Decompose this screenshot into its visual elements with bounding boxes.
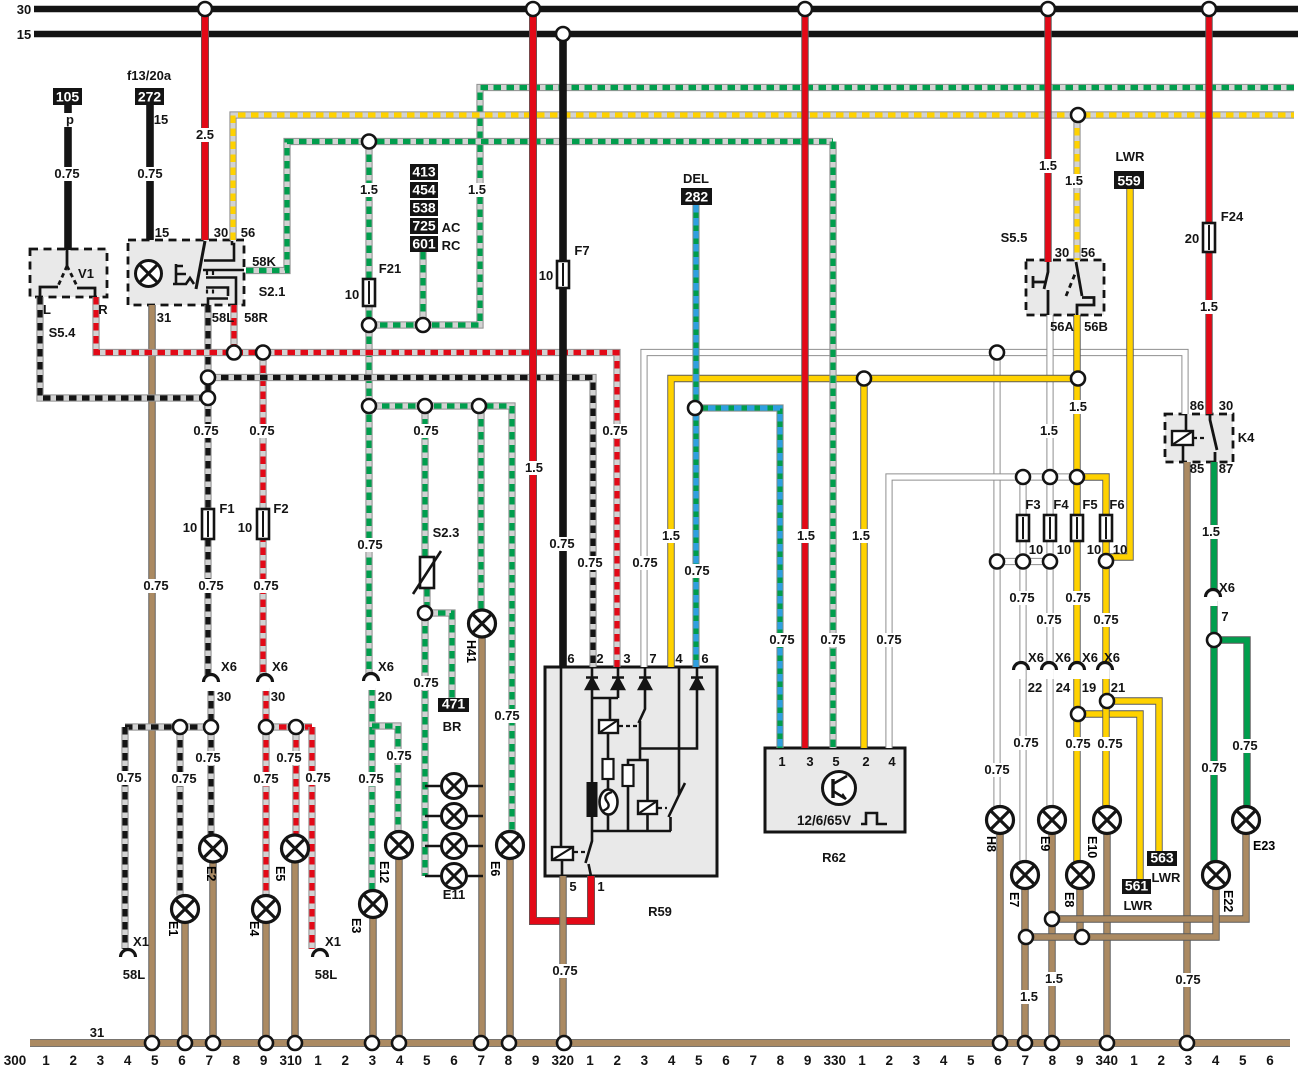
svg-text:20: 20 [1185,231,1199,246]
svg-text:0.75: 0.75 [820,632,845,647]
svg-text:p: p [66,112,74,127]
svg-text:1.5: 1.5 [662,528,680,543]
svg-text:S2.3: S2.3 [433,525,460,540]
svg-text:S5.4: S5.4 [49,325,77,340]
svg-text:3: 3 [806,754,813,769]
svg-text:413: 413 [412,164,436,180]
svg-text:9: 9 [532,1053,540,1068]
svg-text:8: 8 [233,1053,241,1068]
svg-text:58K: 58K [252,254,276,269]
svg-text:454: 454 [412,182,436,198]
svg-text:300: 300 [4,1053,27,1068]
svg-text:10: 10 [1057,542,1071,557]
svg-text:0.75: 0.75 [305,770,330,785]
svg-text:LWR: LWR [1116,149,1145,164]
svg-text:R59: R59 [648,904,672,919]
svg-text:F2: F2 [273,501,288,516]
svg-text:f13/20a: f13/20a [127,68,172,83]
svg-text:1: 1 [586,1053,594,1068]
svg-text:7: 7 [1021,1053,1029,1068]
svg-text:F24: F24 [1221,209,1244,224]
svg-text:1: 1 [1130,1053,1138,1068]
svg-text:7: 7 [749,1053,757,1068]
svg-text:0.75: 0.75 [1065,736,1090,751]
svg-text:0.75: 0.75 [552,963,577,978]
svg-text:0.75: 0.75 [1093,612,1118,627]
svg-text:22: 22 [1028,680,1042,695]
svg-text:7: 7 [205,1053,213,1068]
svg-text:0.75: 0.75 [358,771,383,786]
svg-text:1: 1 [42,1053,50,1068]
svg-text:2: 2 [885,1053,893,1068]
svg-text:S2.1: S2.1 [259,284,286,299]
svg-text:471: 471 [442,696,466,712]
svg-text:7: 7 [649,651,656,666]
svg-text:K4: K4 [1238,430,1255,445]
svg-text:0.75: 0.75 [116,770,141,785]
svg-text:105: 105 [56,89,80,105]
svg-text:6: 6 [701,651,708,666]
svg-text:R62: R62 [822,850,846,865]
svg-text:725: 725 [412,218,436,234]
svg-text:56: 56 [1081,245,1095,260]
svg-text:15: 15 [17,27,31,42]
svg-text:10: 10 [1029,542,1043,557]
svg-text:272: 272 [138,89,162,105]
svg-text:0.75: 0.75 [1201,760,1226,775]
svg-text:340: 340 [1096,1053,1119,1068]
svg-text:0.75: 0.75 [684,563,709,578]
svg-text:282: 282 [685,189,709,205]
svg-text:1.5: 1.5 [852,528,870,543]
svg-text:0.75: 0.75 [195,750,220,765]
svg-text:2: 2 [613,1053,621,1068]
svg-text:30: 30 [217,689,231,704]
svg-text:F3: F3 [1025,497,1040,512]
svg-text:LWR: LWR [1152,870,1181,885]
svg-text:BR: BR [443,719,462,734]
svg-text:0.75: 0.75 [549,536,574,551]
svg-text:X6: X6 [1104,650,1120,665]
svg-text:4: 4 [675,651,683,666]
svg-text:6: 6 [567,651,574,666]
svg-text:2: 2 [69,1053,77,1068]
svg-text:15: 15 [155,225,169,240]
svg-text:1.5: 1.5 [1045,971,1063,986]
svg-text:E6: E6 [488,861,502,876]
svg-text:0.75: 0.75 [494,708,519,723]
svg-text:31: 31 [90,1025,104,1040]
svg-text:3: 3 [641,1053,649,1068]
svg-text:9: 9 [804,1053,812,1068]
svg-text:6: 6 [1266,1053,1274,1068]
svg-text:85: 85 [1190,461,1204,476]
svg-text:2: 2 [1157,1053,1165,1068]
svg-text:86: 86 [1190,398,1204,413]
svg-text:2: 2 [596,651,603,666]
svg-text:8: 8 [505,1053,513,1068]
svg-text:10: 10 [183,520,197,535]
svg-text:F1: F1 [219,501,234,516]
svg-text:1: 1 [778,754,785,769]
svg-text:3: 3 [623,651,630,666]
svg-text:4: 4 [668,1053,676,1068]
svg-text:2: 2 [341,1053,349,1068]
svg-text:0.75: 0.75 [984,762,1009,777]
svg-text:3: 3 [369,1053,377,1068]
svg-text:S5.5: S5.5 [1001,230,1028,245]
svg-text:0.75: 0.75 [1097,736,1122,751]
svg-text:559: 559 [1117,173,1141,189]
svg-text:56: 56 [241,225,255,240]
svg-text:1.5: 1.5 [1069,399,1087,414]
svg-text:LWR: LWR [1124,898,1153,913]
svg-text:30: 30 [214,225,228,240]
svg-text:9: 9 [1076,1053,1084,1068]
svg-text:1.5: 1.5 [468,182,486,197]
svg-text:5: 5 [832,754,839,769]
svg-text:1.5: 1.5 [1040,423,1058,438]
svg-text:X6: X6 [1055,650,1071,665]
svg-text:58R: 58R [244,310,268,325]
svg-text:F5: F5 [1082,497,1097,512]
svg-text:0.75: 0.75 [193,423,218,438]
svg-text:R: R [98,302,108,317]
svg-text:AC: AC [442,220,461,235]
svg-text:H41: H41 [464,640,478,663]
svg-text:6: 6 [994,1053,1002,1068]
svg-text:21: 21 [1111,680,1125,695]
svg-text:0.75: 0.75 [632,555,657,570]
svg-text:0.75: 0.75 [413,675,438,690]
svg-text:6: 6 [178,1053,186,1068]
svg-text:0.75: 0.75 [1232,738,1257,753]
svg-text:20: 20 [378,689,392,704]
svg-text:561: 561 [1125,878,1149,894]
svg-text:0.75: 0.75 [198,578,223,593]
svg-text:F4: F4 [1053,497,1069,512]
svg-text:0.75: 0.75 [253,578,278,593]
svg-text:6: 6 [450,1053,458,1068]
svg-text:X6: X6 [221,659,237,674]
svg-text:X1: X1 [133,934,149,949]
svg-text:F7: F7 [574,243,589,258]
svg-text:30: 30 [271,689,285,704]
svg-text:15: 15 [154,112,168,127]
svg-text:1.5: 1.5 [797,528,815,543]
svg-text:30: 30 [1055,245,1069,260]
svg-text:0.75: 0.75 [1036,612,1061,627]
svg-text:1: 1 [858,1053,866,1068]
svg-text:0.75: 0.75 [413,423,438,438]
svg-text:56B: 56B [1084,319,1108,334]
svg-text:3: 3 [97,1053,105,1068]
svg-text:X6: X6 [1219,580,1235,595]
svg-text:E10: E10 [1085,836,1099,858]
svg-text:0.75: 0.75 [1009,590,1034,605]
svg-text:0.75: 0.75 [54,166,79,181]
svg-text:8: 8 [777,1053,785,1068]
svg-text:10: 10 [539,268,553,283]
svg-text:12/6/65V: 12/6/65V [797,813,851,828]
svg-text:X6: X6 [272,659,288,674]
svg-text:1.5: 1.5 [1020,989,1038,1004]
svg-text:E12: E12 [377,861,391,883]
svg-text:0.75: 0.75 [249,423,274,438]
svg-text:E11: E11 [443,887,465,902]
svg-text:2.5: 2.5 [196,127,214,142]
svg-text:E22: E22 [1221,890,1235,912]
svg-text:3: 3 [1185,1053,1193,1068]
svg-text:30: 30 [17,2,31,17]
svg-text:L: L [43,302,51,317]
svg-text:E4: E4 [247,921,261,936]
svg-text:0.75: 0.75 [876,632,901,647]
svg-text:1.5: 1.5 [360,182,378,197]
svg-text:E7: E7 [1007,892,1021,907]
svg-text:0.75: 0.75 [577,555,602,570]
svg-text:0.75: 0.75 [171,771,196,786]
svg-text:8: 8 [1049,1053,1057,1068]
svg-text:DEL: DEL [683,171,709,186]
svg-text:5: 5 [1239,1053,1247,1068]
svg-text:0.75: 0.75 [1175,972,1200,987]
svg-text:0.75: 0.75 [137,166,162,181]
svg-text:0.75: 0.75 [769,632,794,647]
svg-text:0.75: 0.75 [253,771,278,786]
svg-text:0.75: 0.75 [276,750,301,765]
svg-text:320: 320 [552,1053,575,1068]
svg-text:X1: X1 [325,934,341,949]
svg-text:5: 5 [967,1053,975,1068]
svg-text:X6: X6 [378,659,394,674]
svg-text:87: 87 [1219,461,1233,476]
svg-text:E1: E1 [166,921,180,936]
svg-text:10: 10 [1087,542,1101,557]
svg-text:4: 4 [888,754,896,769]
svg-text:30: 30 [1219,398,1233,413]
svg-text:538: 538 [412,200,436,216]
svg-text:X6: X6 [1082,650,1098,665]
svg-text:19: 19 [1082,680,1096,695]
svg-text:E3: E3 [349,918,363,933]
svg-text:1.5: 1.5 [525,460,543,475]
svg-text:2: 2 [862,754,869,769]
svg-text:10: 10 [345,287,359,302]
svg-text:601: 601 [412,236,436,252]
svg-text:E5: E5 [273,866,287,881]
svg-text:58L: 58L [123,967,145,982]
svg-text:E23: E23 [1253,839,1275,853]
svg-text:4: 4 [1212,1053,1220,1068]
svg-text:0.75: 0.75 [1065,590,1090,605]
svg-text:1.5: 1.5 [1065,173,1083,188]
svg-text:RC: RC [442,238,461,253]
svg-text:10: 10 [1113,542,1127,557]
svg-text:24: 24 [1056,680,1071,695]
svg-text:7: 7 [477,1053,485,1068]
svg-text:0.75: 0.75 [357,537,382,552]
svg-text:1: 1 [597,879,604,894]
svg-text:H8: H8 [984,836,998,852]
svg-text:4: 4 [940,1053,948,1068]
svg-text:0.75: 0.75 [602,423,627,438]
svg-text:V1: V1 [78,266,94,281]
svg-text:31: 31 [157,310,171,325]
svg-text:0.75: 0.75 [143,578,168,593]
svg-text:7: 7 [1221,609,1228,624]
svg-text:330: 330 [824,1053,847,1068]
svg-text:E8: E8 [1062,892,1076,907]
svg-text:5: 5 [569,879,576,894]
svg-text:563: 563 [1150,850,1174,866]
svg-text:58L: 58L [315,967,337,982]
svg-text:5: 5 [695,1053,703,1068]
svg-text:9: 9 [260,1053,268,1068]
svg-text:F21: F21 [379,261,401,276]
svg-text:3: 3 [913,1053,921,1068]
svg-text:5: 5 [423,1053,431,1068]
svg-text:58L: 58L [212,310,234,325]
svg-text:F6: F6 [1109,497,1124,512]
svg-text:0.75: 0.75 [386,748,411,763]
svg-text:X6: X6 [1028,650,1044,665]
svg-text:E9: E9 [1038,836,1052,851]
svg-text:E2: E2 [204,866,218,881]
svg-text:1: 1 [314,1053,322,1068]
svg-text:4: 4 [124,1053,132,1068]
svg-text:0.75: 0.75 [1013,735,1038,750]
svg-text:5: 5 [151,1053,159,1068]
svg-text:4: 4 [396,1053,404,1068]
svg-text:1.5: 1.5 [1039,158,1057,173]
svg-text:10: 10 [238,520,252,535]
svg-text:1.5: 1.5 [1202,524,1220,539]
svg-text:310: 310 [280,1053,303,1068]
svg-text:6: 6 [722,1053,730,1068]
svg-text:56A: 56A [1050,319,1074,334]
svg-text:1.5: 1.5 [1200,299,1218,314]
